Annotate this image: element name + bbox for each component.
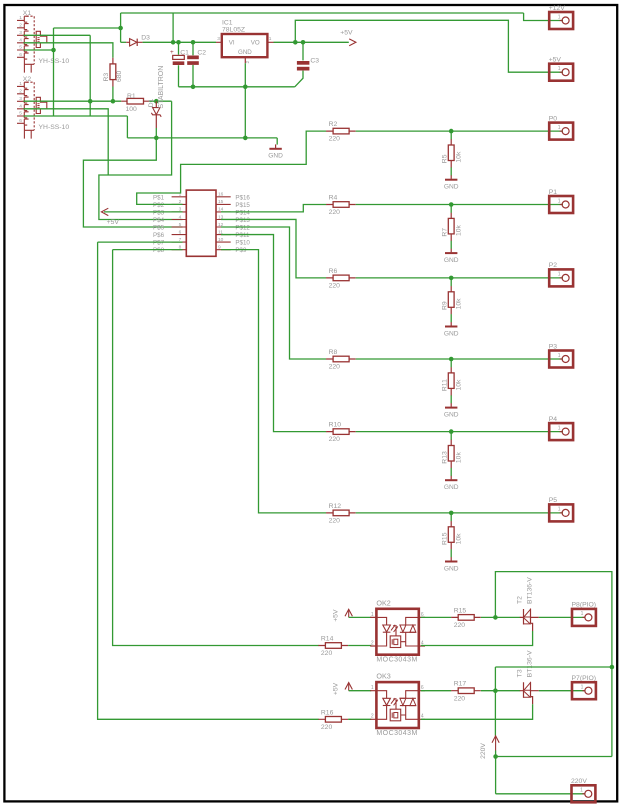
svg-text:T3: T3 — [517, 669, 524, 677]
wire R2 to pad P0 — [356, 130, 563, 132]
svg-text:IC1: IC1 — [222, 19, 233, 26]
resistor R14 — [318, 636, 348, 658]
wire pin11 to P4 row — [221, 235, 326, 432]
supply +5V arrow left — [101, 208, 119, 226]
resistor R15 — [442, 521, 463, 549]
wire IC1 GND down — [244, 63, 246, 138]
svg-text:1: 1 — [558, 14, 561, 20]
wire R16 to opto pin2 — [348, 718, 371, 720]
connector pad +5V pad — [549, 57, 573, 81]
svg-text:2: 2 — [371, 640, 374, 646]
svg-text:220: 220 — [454, 695, 466, 702]
connector X2 YH-SS-10 — [17, 76, 69, 139]
wire connector pin2 to P0 row — [137, 131, 327, 204]
svg-text:+5V: +5V — [107, 219, 120, 226]
svg-text:P$6: P$6 — [153, 232, 165, 239]
supply 220V arrow — [480, 736, 499, 759]
svg-text:1: 1 — [581, 611, 584, 617]
junction C2 bottom — [191, 85, 196, 90]
svg-text:6: 6 — [19, 118, 22, 124]
svg-text:MOC3043M: MOC3043M — [376, 657, 417, 664]
wire triac to pad P8(PIO) — [539, 616, 585, 618]
resistor R17 — [451, 681, 481, 703]
wire pin7 to OK3 row — [98, 242, 319, 719]
junction X2 pin3 row — [88, 99, 93, 104]
svg-text:C2: C2 — [197, 50, 206, 57]
wire to R13 — [450, 432, 452, 440]
connector X1 YH-SS-10 — [17, 10, 69, 73]
wire D1 to GND rail — [155, 128, 157, 138]
junction +5V riser — [293, 40, 298, 45]
svg-text:R15: R15 — [454, 607, 467, 614]
resistor R9 — [442, 286, 463, 314]
wire GND to connector pin 5 — [83, 138, 182, 227]
svg-text:9: 9 — [218, 245, 221, 251]
svg-text:4: 4 — [19, 38, 22, 44]
wire X2 pin5 row — [23, 115, 127, 117]
supply +5V arrow right — [340, 30, 356, 46]
svg-text:R13: R13 — [442, 451, 449, 464]
connector pad 220V — [571, 778, 595, 802]
resistor R4 — [326, 195, 356, 217]
svg-text:P$14: P$14 — [235, 210, 250, 217]
ground P4 row — [444, 476, 459, 491]
svg-text:220: 220 — [329, 436, 341, 443]
svg-text:1: 1 — [581, 685, 584, 691]
resistor R6 — [326, 268, 356, 290]
wire to R11 — [450, 359, 452, 367]
wire R7 to ground — [450, 241, 452, 249]
svg-text:1: 1 — [558, 125, 561, 131]
wire R13 to ground — [450, 468, 452, 476]
svg-text:1: 1 — [558, 198, 561, 204]
svg-text:78L05Z: 78L05Z — [222, 26, 245, 33]
svg-text:1: 1 — [558, 272, 561, 278]
svg-text:GND: GND — [268, 153, 283, 160]
svg-text:P$11: P$11 — [235, 232, 250, 239]
junction R11 top — [449, 357, 454, 362]
wire opto pin6 out — [421, 690, 452, 692]
svg-text:+5V: +5V — [340, 30, 353, 37]
wire pin8 to OK2 row — [113, 250, 319, 646]
connector pad +12V pad — [549, 5, 573, 29]
wire R17 to triac — [481, 690, 520, 692]
wire R9 to ground — [450, 314, 452, 322]
connector pad P5 — [549, 497, 573, 521]
wire X1 pin4 to R3 top — [23, 43, 113, 58]
svg-text:R11: R11 — [442, 379, 449, 391]
svg-text:P$12: P$12 — [235, 225, 250, 232]
svg-text:+5V: +5V — [333, 682, 340, 695]
svg-text:+: + — [170, 49, 174, 56]
svg-text:R4: R4 — [329, 195, 338, 202]
ground P5 row — [444, 557, 459, 572]
wire connector pin8 out — [113, 249, 183, 251]
wire connector pin7 out — [98, 241, 183, 243]
svg-text:3: 3 — [217, 36, 220, 42]
wire into D3 — [121, 41, 127, 43]
svg-text:1: 1 — [580, 788, 583, 794]
wire +5V to opto pin1 — [349, 616, 372, 618]
svg-text:R5: R5 — [442, 154, 449, 163]
junction +12V tap — [171, 40, 176, 45]
svg-text:1: 1 — [19, 15, 22, 21]
resistor R2 — [326, 121, 356, 143]
svg-text:4: 4 — [179, 214, 182, 220]
svg-text:220V: 220V — [480, 743, 487, 759]
svg-text:16: 16 — [218, 192, 224, 198]
wire triac to pad P7(PIO) — [539, 690, 585, 692]
svg-text:R10: R10 — [329, 422, 342, 429]
supply +5V arrow — [333, 609, 353, 622]
wire 220V cross link — [495, 666, 612, 668]
junction C1 top — [176, 40, 181, 45]
resistor R8 — [326, 349, 356, 371]
wire +12V tap vertical — [172, 13, 174, 42]
resistor R15 — [451, 607, 481, 629]
junction R15 top — [449, 511, 454, 516]
junction C3 top — [301, 40, 306, 45]
wire 220V net right edge — [495, 572, 612, 757]
svg-text:P$4: P$4 — [153, 217, 165, 224]
ground P0 row — [444, 175, 459, 190]
svg-text:6: 6 — [179, 229, 182, 235]
svg-text:R3: R3 — [103, 73, 110, 82]
svg-text:220: 220 — [329, 209, 341, 216]
svg-text:10k: 10k — [455, 452, 462, 464]
ground P1 row — [444, 249, 459, 264]
zener diode D1 STABILTRON — [148, 66, 165, 128]
svg-text:3: 3 — [19, 96, 22, 102]
wire connector pin3 +5V — [104, 211, 183, 213]
svg-text:P$13: P$13 — [235, 217, 250, 224]
svg-text:220: 220 — [321, 724, 333, 731]
capacitor C3 — [295, 42, 320, 87]
wire to GND symbol — [276, 138, 278, 145]
optocoupler OK2 MOC3043M — [370, 598, 425, 663]
svg-text:BT136-V: BT136-V — [527, 650, 534, 677]
svg-text:10: 10 — [218, 237, 224, 243]
svg-text:220: 220 — [454, 622, 466, 629]
wire 220V to T3 row — [494, 667, 496, 691]
svg-text:10k: 10k — [455, 151, 462, 163]
svg-text:VO: VO — [251, 39, 260, 46]
wire R3 bottom — [112, 87, 114, 102]
capacitor C2 — [187, 42, 206, 87]
junction R7 top — [449, 202, 454, 207]
svg-text:2: 2 — [371, 714, 374, 720]
svg-text:1: 1 — [558, 353, 561, 359]
wire R10 to pad P4 — [356, 431, 563, 433]
ground P2 row — [444, 322, 459, 337]
connector pad P4 — [549, 416, 573, 440]
svg-text:4: 4 — [19, 104, 22, 110]
svg-text:5: 5 — [19, 45, 22, 51]
svg-text:10k: 10k — [455, 379, 462, 391]
svg-text:VI: VI — [229, 39, 235, 46]
resistor R1 — [121, 93, 149, 113]
svg-text:R7: R7 — [442, 228, 449, 237]
wire triac gate to opto pin4 — [421, 704, 533, 719]
svg-text:GND: GND — [238, 49, 252, 56]
svg-text:220: 220 — [329, 283, 341, 290]
wire R15 to triac — [481, 616, 520, 618]
svg-text:6: 6 — [19, 52, 22, 58]
diode D3 — [126, 34, 150, 46]
junction +12V/X1 tap — [118, 26, 123, 31]
svg-text:680: 680 — [116, 70, 123, 82]
svg-text:GND: GND — [444, 184, 459, 191]
svg-text:10k: 10k — [455, 224, 462, 236]
wire opto pin6 out — [421, 616, 452, 618]
wire to R7 — [450, 205, 452, 213]
wire R1 out — [149, 100, 171, 102]
svg-text:P$16: P$16 — [235, 194, 250, 201]
svg-text:P$5: P$5 — [153, 225, 165, 232]
svg-text:220: 220 — [321, 650, 333, 657]
junction D1 top — [154, 99, 159, 104]
svg-text:2: 2 — [245, 61, 251, 64]
wire R8 to pad P3 — [356, 358, 563, 360]
wire pin9 to P5 row — [221, 250, 326, 513]
svg-text:1: 1 — [558, 507, 561, 513]
resistor R7 — [442, 213, 463, 241]
wire +5V to pad — [295, 20, 563, 72]
svg-text:P$1: P$1 — [153, 194, 165, 201]
triac T3 — [517, 650, 539, 704]
junction X1 pin5 — [51, 48, 56, 53]
wire X1 link upper — [54, 27, 121, 29]
wire pin13 to P2 row — [221, 219, 326, 277]
svg-text:R17: R17 — [454, 681, 467, 688]
junction cap rail — [243, 85, 248, 90]
junction D1 bottom — [154, 136, 159, 141]
svg-text:MOC3043M: MOC3043M — [376, 730, 417, 737]
connector pad P8(PIO) — [572, 602, 597, 626]
wire triac gate to opto pin4 — [421, 631, 533, 646]
wire X1 pin5 — [23, 49, 53, 51]
wire R4 to pad P1 — [356, 204, 563, 206]
voltage regulator IC1 78L05Z — [216, 19, 274, 63]
svg-text:BT136-V: BT136-V — [527, 577, 534, 604]
wire X2 pin3 to R1 — [23, 100, 121, 102]
wire R14 to opto pin2 — [348, 645, 371, 647]
connector pad P0 — [549, 115, 573, 139]
svg-text:D3: D3 — [141, 34, 150, 41]
svg-text:3: 3 — [19, 30, 22, 36]
supply +5V arrow — [333, 682, 353, 695]
svg-text:R2: R2 — [329, 121, 338, 128]
svg-text:P$9: P$9 — [235, 247, 247, 254]
svg-text:GND: GND — [444, 257, 459, 264]
svg-text:1: 1 — [371, 612, 374, 618]
svg-text:R6: R6 — [329, 268, 338, 275]
wire pin12 to P3 row — [221, 227, 326, 359]
resistor R16 — [318, 709, 348, 731]
svg-text:2: 2 — [19, 23, 22, 29]
wire +12V drop — [120, 13, 122, 42]
connector pad P1 — [549, 189, 573, 213]
svg-text:+5V: +5V — [333, 609, 340, 622]
wire +5V to opto pin1 — [349, 690, 372, 692]
svg-text:R14: R14 — [321, 636, 334, 643]
svg-text:OK3: OK3 — [376, 672, 390, 681]
svg-text:10k: 10k — [455, 298, 462, 310]
svg-text:R9: R9 — [442, 301, 449, 310]
svg-text:220: 220 — [329, 518, 341, 525]
wire IC1 output — [274, 41, 349, 43]
svg-text:R1: R1 — [127, 93, 136, 100]
wire +12V to pad — [524, 13, 563, 21]
resistor R5 — [442, 139, 463, 167]
capacitor C1 — [170, 42, 189, 87]
svg-text:P$8: P$8 — [153, 247, 165, 254]
wire R5 to ground — [450, 167, 452, 175]
svg-text:OK2: OK2 — [376, 598, 390, 607]
connector pad P3 — [549, 343, 573, 367]
svg-text:GND: GND — [444, 484, 459, 491]
svg-text:P$3: P$3 — [153, 210, 165, 217]
wire 220V to pad — [495, 751, 497, 794]
wire GND rail — [127, 137, 277, 139]
svg-text:P$10: P$10 — [235, 240, 250, 247]
svg-text:10k: 10k — [455, 533, 462, 545]
wire to R15 — [450, 513, 452, 521]
connector pad P7(PIO) — [572, 675, 597, 699]
wire 220V bottom link — [496, 756, 612, 758]
wire X1 pin3 — [23, 34, 90, 36]
svg-text:5: 5 — [19, 111, 22, 117]
junction R9 top — [449, 276, 454, 281]
wire R11 to ground — [450, 395, 452, 403]
ground P3 row — [444, 403, 459, 418]
svg-text:T2: T2 — [517, 596, 524, 604]
junction R5 top — [449, 129, 454, 134]
wire to R9 — [450, 278, 452, 286]
resistor R12 — [326, 503, 356, 525]
wire +12V net top run — [121, 12, 524, 14]
junction GND rail — [243, 136, 248, 141]
ground GND main — [268, 144, 283, 159]
resistor R10 — [326, 422, 356, 444]
svg-text:GND: GND — [444, 565, 459, 572]
svg-text:D1: D1 — [148, 98, 155, 107]
resistor R11 — [442, 367, 463, 395]
svg-text:1: 1 — [269, 36, 272, 42]
svg-text:STABILTRON: STABILTRON — [158, 66, 165, 109]
wire capacitor ground rail — [179, 86, 295, 88]
svg-text:15: 15 — [218, 199, 224, 205]
svg-text:R12: R12 — [329, 503, 342, 510]
connector pad P2 — [549, 262, 573, 286]
svg-text:1: 1 — [371, 685, 374, 691]
wire R15 to ground — [450, 549, 452, 557]
svg-text:1: 1 — [19, 81, 22, 87]
wire pin14 to P1 row — [221, 205, 326, 212]
connector SV1 16-pin header — [153, 190, 250, 256]
wire R6 to pad P2 — [356, 277, 563, 279]
svg-text:220: 220 — [329, 364, 341, 371]
junction 220V arrow — [493, 754, 498, 759]
svg-text:R16: R16 — [321, 709, 334, 716]
wire X2 pin4 down — [23, 109, 108, 175]
junction R3 bottom — [111, 99, 116, 104]
svg-text:P$7: P$7 — [153, 240, 165, 247]
svg-text:1: 1 — [558, 66, 561, 72]
svg-text:P$2: P$2 — [153, 202, 165, 209]
optocoupler OK3 MOC3043M — [370, 672, 425, 737]
wire X1 pin3 vertical — [89, 35, 91, 116]
triac T2 — [517, 577, 539, 631]
svg-text:1: 1 — [558, 425, 561, 431]
svg-text:100: 100 — [126, 106, 138, 113]
svg-text:R15: R15 — [442, 532, 449, 545]
resistor R3 — [103, 58, 123, 87]
svg-text:GND: GND — [444, 330, 459, 337]
svg-text:GND: GND — [444, 411, 459, 418]
wire into 220V pad — [496, 793, 586, 795]
junction C2 top — [191, 40, 196, 45]
svg-text:5: 5 — [179, 222, 182, 228]
junction 220V net — [493, 688, 498, 693]
svg-text:P$15: P$15 — [235, 202, 250, 209]
svg-text:YH-SS-10: YH-SS-10 — [39, 124, 70, 131]
svg-text:220: 220 — [329, 136, 341, 143]
wire zener +5V to connector pin 4 — [99, 101, 183, 219]
wire X1 pin5 to X2 pin5 vertical — [53, 28, 55, 116]
resistor R13 — [442, 440, 463, 468]
wire to R5 — [450, 131, 452, 139]
wire R12 to pad P5 — [356, 512, 563, 514]
wire 220V down to arrow — [494, 691, 496, 736]
wire D3 to IC1 VI — [143, 41, 216, 43]
junction 220V — [610, 665, 615, 670]
wire to GND rail — [126, 116, 128, 138]
junction R13 top — [449, 429, 454, 434]
junction 220V net — [493, 615, 498, 620]
svg-text:2: 2 — [19, 89, 22, 95]
svg-text:C3: C3 — [310, 58, 319, 65]
svg-text:R8: R8 — [329, 349, 338, 356]
